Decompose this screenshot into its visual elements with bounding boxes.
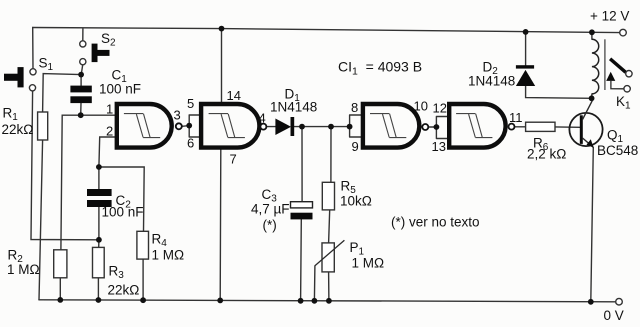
node rail / relay coil [589, 29, 595, 35]
svg-text:10kΩ: 10kΩ [340, 194, 372, 209]
svg-text:12: 12 [433, 101, 447, 116]
wire S2 bottom contact to C1 top node [81, 65, 83, 75]
node gate3 input bracket [347, 124, 353, 130]
wire R5 bottom to P1 top [329, 210, 330, 243]
wire relay coil top lead [591, 32, 593, 39]
wire node to R4 top [99, 167, 144, 231]
resistor R2 [54, 250, 67, 278]
node gate4 input bracket [434, 124, 440, 130]
resistor R1 [38, 112, 48, 140]
relay K1 contact terminals [626, 71, 632, 77]
wire C3 bottom lead [300, 219, 303, 300]
wire C2 bottom to lower node [98, 207, 100, 240]
relay K1 coil [592, 39, 599, 94]
terminal 0V [616, 298, 623, 305]
wire R2 bottom lead [59, 278, 61, 300]
svg-text:14: 14 [227, 88, 241, 103]
resistor R6 [526, 122, 555, 131]
svg-text:22kΩ: 22kΩ [2, 122, 34, 137]
node R3 / 0V rail [96, 297, 102, 303]
wire S2 stub from rail [82, 29, 84, 41]
wire bracket pins 8/9 [350, 115, 363, 137]
wire gate1 pin2 left, down to node [99, 137, 116, 167]
svg-text:100 nF: 100 nF [102, 205, 144, 220]
node emitter / 0V rail [588, 299, 594, 305]
wire lower node to R3 top [98, 240, 100, 248]
capacitor C3 [291, 202, 313, 220]
wire C1 top node to top plate [80, 75, 82, 86]
node C2 bottom / R3 / S1 line [96, 237, 102, 243]
svg-text:1N4148: 1N4148 [468, 74, 515, 89]
wire relay coil bottom lead [591, 94, 593, 98]
wire C1 bottom plate to input-1 node [80, 103, 82, 115]
wire node down to C2 top [98, 167, 100, 189]
wire Q1 emitter down to 0V rail [591, 147, 594, 301]
wire R1 top lead [43, 74, 82, 112]
gate U1b (pins 5,6,4,14,7) [201, 104, 266, 148]
resistor R3 [93, 247, 105, 277]
gate U1c (pins 8,9,10) [363, 104, 428, 148]
svg-text:1 MΩ: 1 MΩ [7, 262, 40, 277]
svg-text:10: 10 [414, 99, 428, 114]
node D1 cathode / C3 [299, 124, 305, 130]
svg-text:1 MΩ: 1 MΩ [352, 256, 385, 271]
svg-text:+ 12 V: + 12 V [590, 9, 629, 24]
svg-text:7: 7 [230, 152, 237, 167]
svg-text:4: 4 [259, 111, 266, 126]
capacitor C2 [87, 189, 112, 207]
resistor R4 [137, 231, 149, 259]
node gate1 pin 2 / C2 / R4 [96, 164, 102, 170]
wire D2 top lead from rail [525, 32, 527, 65]
relay K1 separator bar [604, 39, 606, 90]
node C3 / 0V rail [298, 298, 304, 304]
svg-text:3: 3 [174, 108, 181, 123]
wire C3 top lead [301, 127, 303, 202]
node C1 bottom / gate1 pin 1 [78, 112, 84, 118]
svg-text:0 V: 0 V [604, 308, 624, 323]
potentiometer P1 [315, 240, 345, 272]
transistor Q1 [569, 101, 602, 148]
switch S2 [80, 41, 110, 65]
wire Q1 collector to relay node [591, 98, 593, 100]
relay K1 armature arrow [606, 72, 615, 81]
svg-text:4,7 µF: 4,7 µF [251, 202, 290, 217]
node R4 / 0V rail [140, 297, 146, 303]
svg-text:13: 13 [432, 139, 446, 154]
wire gate2 output to D1 anode [267, 126, 276, 128]
svg-text:22kΩ: 22kΩ [108, 283, 140, 298]
wire bracket pins 5/6 [189, 115, 201, 137]
node R2 / 0V rail [57, 297, 63, 303]
switch S1 [4, 67, 36, 91]
wire gate1 pin1 left, down to R2 [61, 115, 116, 250]
svg-text:11: 11 [509, 110, 523, 125]
wire pin14 from rail to gate2 top [221, 29, 223, 103]
svg-text:100 nF: 100 nF [99, 82, 141, 97]
wire left rail corner down to S1 top contact [32, 28, 34, 69]
wire R3 bottom lead [97, 278, 99, 300]
svg-text:9: 9 [352, 139, 359, 154]
svg-text:1N4148: 1N4148 [270, 100, 317, 115]
wire top +12V rail [33, 28, 620, 33]
node rail / D2 [523, 29, 529, 35]
wire bottom 0V rail [39, 300, 615, 302]
svg-text:2: 2 [106, 124, 113, 139]
node C1 top / S2 / R1 [78, 72, 84, 78]
capacitor C1 [70, 86, 91, 104]
wire R1 bottom lead to 0V rail corner [39, 140, 43, 300]
wire bracket pins 12/13 [436, 117, 449, 139]
wire P1 bottom lead [328, 272, 330, 301]
node gate1 output [186, 123, 192, 129]
svg-text:8: 8 [351, 100, 358, 115]
node P1 bottom / 0V rail [326, 298, 332, 304]
node pin 7 / 0V rail [217, 298, 223, 304]
node rail / pin 14 [219, 26, 225, 32]
node P1 wiper / 0V rail [312, 298, 318, 304]
wire R6 to Q1 base [555, 126, 580, 128]
terminal +12V [620, 29, 627, 36]
wire R5 top lead [330, 127, 332, 183]
diode D2 [516, 65, 535, 86]
wire pin7 from gate2 bottom to 0V rail [219, 149, 222, 300]
svg-text:6: 6 [187, 136, 194, 151]
wire D2 bottom lead to relay node [526, 86, 592, 98]
svg-text:1: 1 [106, 102, 113, 117]
wire gate4 output to R6 [515, 126, 526, 128]
wire R4 bottom lead [142, 259, 144, 300]
svg-text:1 MΩ: 1 MΩ [152, 248, 185, 263]
diode D1 [275, 117, 294, 136]
gate U1a (pins 1,2,3) [117, 104, 182, 148]
svg-text:BC548: BC548 [597, 143, 638, 158]
svg-text:5: 5 [187, 96, 194, 111]
svg-text:(*) ver no texto: (*) ver no texto [391, 215, 480, 230]
relay K1 contact blade [610, 59, 626, 73]
node R5 top [328, 124, 334, 130]
wire D1 cathode to gate3 bracket [294, 126, 349, 128]
wire S1 bottom contact down then right to C2/R3 node [31, 91, 99, 240]
node relay bottom / D2 / collector [589, 95, 595, 101]
svg-text:(*): (*) [263, 218, 277, 233]
wire gate1 output to node [182, 125, 189, 128]
wire gate3 output to node [428, 126, 436, 128]
gate U1d (pins 12,13,11) [449, 104, 514, 148]
wire P1 wiper to 0V rail [313, 266, 316, 301]
svg-text:2,2 kΩ: 2,2 kΩ [527, 147, 566, 162]
resistor R5 [322, 182, 334, 210]
relay K1 contact wire [611, 81, 624, 89]
